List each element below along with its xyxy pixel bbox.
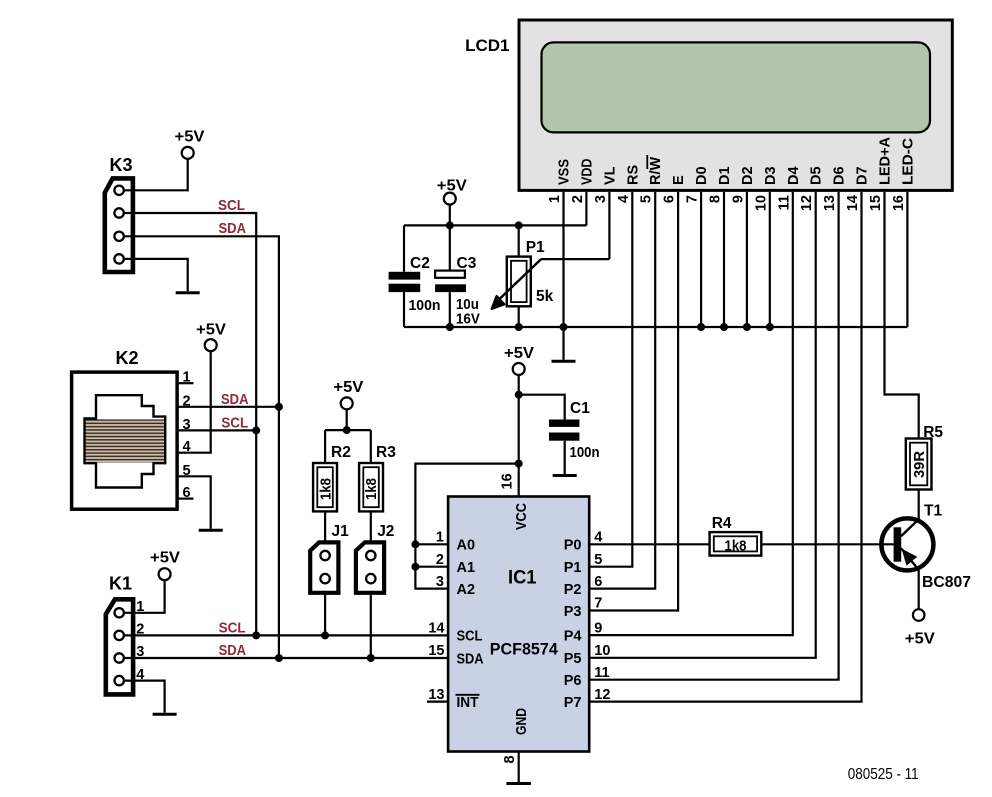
node A1 junction [411,563,419,571]
+5V supply symbol above C3 [437,178,467,226]
svg-text:+5V: +5V [196,322,226,339]
wire K2 pin3 to SCL trunk [178,429,256,431]
svg-text:LED-C: LED-C [900,137,916,185]
svg-text:5k: 5k [536,288,554,305]
wire LCD pin13 D6 down-left to IC1 P6 [589,192,838,680]
svg-text:16: 16 [891,195,907,211]
svg-text:VDD: VDD [579,159,595,186]
ground symbol at K2 [199,529,223,532]
svg-text:SCL: SCL [218,197,245,214]
capacitor C2 [389,225,421,327]
wire K3 pin1 to +5V [121,159,188,190]
connector K2 body [72,372,178,509]
svg-text:P2: P2 [564,582,582,598]
svg-text:D7: D7 [855,166,871,185]
svg-text:P7: P7 [564,695,582,711]
node R2 R3 branch junction [343,426,351,434]
svg-text:4: 4 [182,439,190,455]
svg-text:J1: J1 [332,523,350,540]
svg-text:4: 4 [594,530,602,546]
svg-text:D5: D5 [809,166,825,185]
svg-text:12: 12 [799,195,815,211]
potentiometer P1 [492,225,610,327]
jumper J1 body [310,542,338,592]
svg-text:K3: K3 [110,155,133,175]
svg-text:3: 3 [593,195,609,203]
K3 pin circles [114,186,123,264]
+5V supply symbol at K2 [196,322,226,352]
svg-text:D2: D2 [740,166,756,185]
svg-text:14: 14 [428,621,444,637]
K1 pin numbers 1-4 [136,599,144,683]
svg-text:R4: R4 [712,515,732,532]
svg-text:5: 5 [594,552,602,568]
svg-text:D6: D6 [832,166,848,185]
svg-text:R3: R3 [376,444,396,461]
ground symbol below C1 [553,474,577,477]
wire LCD pin14 D7 down-left to IC1 P7 [589,192,861,702]
LCD pin numbers 1-16 [547,195,907,211]
+5V rail wire above C2 C3 P1 [404,224,586,226]
wire T1 collector to R5 [918,490,920,520]
node SCL trunk/K1 junction [252,631,260,639]
svg-text:C2: C2 [410,255,430,272]
IC1 right pin labels [564,538,582,711]
svg-text:10: 10 [753,195,769,211]
wire T1 emitter to +5V [918,570,920,609]
svg-text:D3: D3 [763,166,779,185]
svg-text:+5V: +5V [905,631,935,648]
resistor R2 [313,463,337,511]
wire K1 pin4 to ground [121,681,165,713]
svg-text:2: 2 [436,552,444,568]
svg-text:3: 3 [136,644,144,660]
svg-text:5: 5 [182,463,190,479]
svg-text:1: 1 [182,370,190,386]
connector K1 body [106,599,133,694]
svg-text:+5V: +5V [333,379,363,396]
IC1 left pin numbers [428,530,444,703]
svg-text:6: 6 [182,485,190,501]
svg-text:SDA: SDA [221,391,249,408]
svg-text:100n: 100n [570,444,600,461]
svg-text:SCL: SCL [457,629,483,645]
svg-text:+5V: +5V [150,550,180,567]
wire GND from IC1 pin 8 [518,752,520,783]
svg-text:A1: A1 [457,560,476,576]
svg-text:11: 11 [594,665,609,681]
svg-text:P0: P0 [564,538,582,554]
wire P0 to R4 [589,543,709,545]
svg-text:9: 9 [594,620,602,636]
svg-text:15: 15 [868,195,884,211]
+5V supply symbol at K3 [175,129,205,159]
svg-text:RS: RS [625,165,641,185]
svg-text:T1: T1 [924,503,942,520]
ground symbol at K3 [176,291,200,294]
svg-text:2: 2 [570,195,586,203]
wire LCD pin16 LED-C down to ground bus [906,192,908,327]
wire R4 to T1 base [761,543,895,545]
svg-text:R2: R2 [331,444,351,461]
wire K2 pin4 to +5V [178,351,211,453]
wire LCD pin3 VL down to P1 wiper [608,192,610,259]
K2 pin numbers 1-6 [182,370,190,501]
junction dots on ground bus [446,323,774,331]
svg-text:R5: R5 [923,424,943,441]
svg-text:2: 2 [136,622,144,638]
node SDA/K2 junction [275,403,283,411]
svg-text:+5V: +5V [437,178,467,195]
svg-text:D0: D0 [694,166,710,185]
LCD pin name labels VSS..LED-C [557,136,917,185]
svg-text:1: 1 [547,195,563,203]
J1 pin circles [320,551,329,584]
wire K1 pin2 SCL line to IC1 [121,634,448,636]
svg-text:7: 7 [594,596,602,612]
ground symbol VSS [552,360,576,363]
svg-text:16V: 16V [456,311,480,328]
svg-text:100n: 100n [409,297,441,314]
svg-text:1k8: 1k8 [725,537,747,554]
svg-text:9: 9 [730,195,746,203]
svg-text:5: 5 [639,195,655,203]
node A0 junction [411,540,419,548]
svg-text:P1: P1 [526,239,545,256]
wire +5V to R2 R3 branch [325,409,371,463]
+5V supply symbol above R2 R3 [333,379,363,409]
junction dots on +5V rail [446,221,523,229]
svg-text:IC1: IC1 [508,568,537,589]
wire LCD pin8 D1 to ground bus [723,192,725,327]
svg-text:1: 1 [136,599,144,615]
node VCC/A-rail junction [515,460,523,468]
svg-text:15: 15 [428,643,444,659]
svg-text:+5V: +5V [504,345,534,362]
K2 jack contact stripes [85,419,164,462]
svg-text:8: 8 [502,755,518,763]
overline of W in R/W pin 5 [646,155,648,169]
wire K1 pin1 to +5V [121,580,165,613]
svg-text:6: 6 [594,574,602,590]
wire A0 stub [415,543,448,545]
node J1/SCL junction [321,631,329,639]
wire R3 to J2 to SDA [370,511,372,658]
svg-text:GND: GND [514,708,530,735]
svg-text:1: 1 [436,530,444,546]
resistor R5 [906,439,932,490]
svg-text:13: 13 [428,687,444,703]
overline of INT [456,694,480,696]
J2 pin circles [366,551,375,584]
svg-text:A2: A2 [457,582,476,598]
IC1 PCF8574 body [448,497,589,752]
svg-text:P3: P3 [564,604,582,620]
wire C1 branch [519,395,565,474]
svg-text:R/W: R/W [648,157,664,186]
node J2/SDA junction [367,654,375,662]
IC1 right pin numbers [594,530,610,703]
wire VCC from +5V to IC1 pin 16 [518,375,520,497]
K2 modular jack outline [85,395,166,487]
svg-text:P4: P4 [564,628,582,644]
svg-text:10: 10 [594,643,610,659]
node SDA trunk/K1 junction [275,654,283,662]
wire LCD pin7 D0 to ground bus [700,192,702,327]
wire K2 pin2 to SDA trunk [178,406,279,408]
svg-text:D1: D1 [717,166,733,185]
svg-text:14: 14 [845,195,861,211]
IC1 left pin labels [457,538,484,711]
wire LCD pin1 VSS down to ground bus [562,192,564,360]
node SCL/K2 junction [252,426,260,434]
wire A0 A1 A2 address rail [415,464,518,589]
svg-text:1k8: 1k8 [317,478,334,500]
svg-text:3: 3 [436,574,444,590]
wire INT stub [427,700,448,702]
svg-text:P5: P5 [564,651,582,667]
svg-text:12: 12 [594,687,610,703]
wire LCD pin9 D2 to ground bus [746,192,748,327]
svg-text:BC807: BC807 [922,574,971,591]
svg-text:1k8: 1k8 [363,478,380,500]
svg-text:C1: C1 [570,400,590,417]
svg-text:VL: VL [602,166,618,185]
svg-text:4: 4 [136,667,144,683]
jumper J2 body [356,542,384,592]
svg-text:K2: K2 [116,348,139,368]
capacitor C3 electrolytic [435,225,466,327]
wire LCD pin5 R/W down-left to IC1 P2 [589,192,655,589]
wire LCD pin15 LED+A to R5 [885,192,919,439]
svg-text:PCF8574: PCF8574 [490,640,559,659]
ground symbol below IC1 [506,782,531,785]
wire LCD pin10 D3 to ground bus [769,192,771,327]
svg-text:VCC: VCC [514,503,530,530]
svg-text:K1: K1 [109,573,132,593]
wire LCD pin6 E down-left to IC1 P3 [589,192,678,611]
svg-text:39R: 39R [911,451,928,478]
svg-text:VSS: VSS [557,159,573,185]
svg-text:SCL: SCL [221,415,248,432]
svg-text:SDA: SDA [457,651,484,667]
+5V supply symbol below T1 [905,609,935,647]
wire K3 pin3 SDA trunk [121,236,279,658]
wire K3 pin4 to ground [121,259,188,291]
resistor R4 [710,532,762,556]
svg-text:11: 11 [776,195,792,210]
svg-text:SDA: SDA [219,642,247,659]
node VCC/C1 junction [515,391,523,399]
svg-text:INT: INT [457,695,479,711]
svg-text:SCL: SCL [219,620,246,637]
wire LCD pin12 D5 down-left to IC1 P5 [589,192,816,658]
wire K3 pin2 SCL trunk [121,213,256,635]
svg-text:13: 13 [822,195,838,211]
svg-text:16: 16 [500,473,516,489]
svg-text:7: 7 [685,195,701,203]
wire LCD pin4 RS down-left to IC1 P1 [589,192,632,567]
connector K3 body [105,178,133,272]
transistor T1 BC807 [881,518,933,570]
svg-text:4: 4 [616,195,632,203]
svg-text:C3: C3 [457,255,477,272]
+5V supply symbol at K1 [150,550,180,581]
wire K1 pin3 SDA line to IC1 [121,657,448,659]
resistor R3 [359,463,383,511]
wire K2 pin1 stub [178,382,194,384]
svg-text:+5V: +5V [175,129,205,146]
wire A1 stub [415,566,448,568]
ground symbol at K1 [153,713,177,716]
svg-text:SDA: SDA [219,220,247,237]
svg-text:6: 6 [662,195,678,203]
svg-text:LCD1: LCD1 [465,36,509,55]
svg-text:D4: D4 [786,166,802,185]
capacitor C1 [549,420,579,441]
svg-text:P6: P6 [564,673,582,689]
svg-text:LED+A: LED+A [878,136,894,185]
K1 pin circles [115,608,124,685]
wire R2 to J1 to SCL [324,511,326,635]
svg-text:J2: J2 [377,523,394,540]
svg-text:P1: P1 [564,560,582,576]
svg-text:8: 8 [708,195,724,203]
ground bus wire [404,326,907,328]
svg-text:3: 3 [182,417,190,433]
+5V supply symbol above IC1 [504,345,534,375]
LCD module LCD1 body [519,20,952,190]
svg-text:E: E [671,175,687,185]
wire LCD pin2 VDD down to +5V rail [585,192,587,226]
svg-text:080525 - 11: 080525 - 11 [848,766,919,783]
wire K2 pin5 to ground [178,476,211,528]
wire K2 pin6 stub [178,498,194,500]
svg-text:A0: A0 [457,538,476,554]
svg-text:2: 2 [182,393,190,409]
wire LCD pin11 D4 down-left to IC1 P4 [589,192,793,635]
